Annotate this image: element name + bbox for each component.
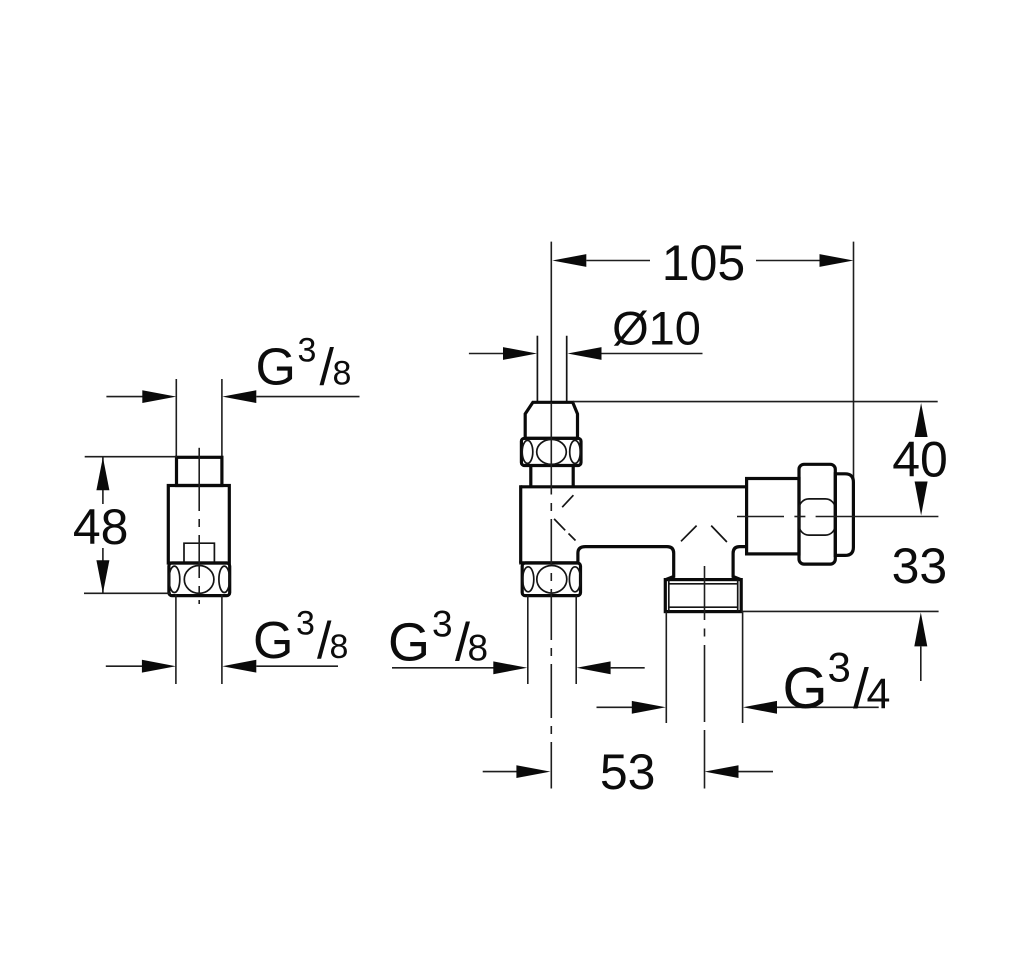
valve inlet nut outline <box>521 438 581 465</box>
adapter inner seat rectangle <box>184 543 214 563</box>
internal passage dash lower-left b <box>569 534 576 541</box>
outlet spigot inner right line <box>737 580 739 612</box>
svg-text:40: 40 <box>892 432 948 488</box>
valve body top edge <box>521 485 747 488</box>
ext line right of outlet thread <box>742 612 744 723</box>
lower nut left ellipse <box>523 567 534 592</box>
outlet spigot inner bottom line <box>669 606 738 608</box>
dim G3/8 bottom-left: left arrowhead <box>142 660 176 673</box>
dim 33: arrow tail <box>920 646 922 681</box>
dim G3/8 bottom-left: left arrow line <box>106 665 142 667</box>
right fitting nut <box>799 464 835 564</box>
ext line right-top of adapter thread <box>221 379 223 457</box>
svg-text:4: 4 <box>867 670 891 718</box>
dim 105: right line segment <box>756 260 820 262</box>
dim 33: up arrowhead below line <box>914 612 927 646</box>
label G 3/8 top <box>256 331 352 396</box>
ext line right-bottom of adapter thread <box>221 595 223 685</box>
dim G3/8 middle: left arrowhead <box>493 661 527 674</box>
svg-text:3: 3 <box>828 644 851 691</box>
dim G3/4: left arrowhead <box>632 701 666 714</box>
dim G3/8 top: left arrowhead <box>142 390 176 403</box>
valve body right bottom edge <box>733 547 747 580</box>
dim 48: down arrowhead <box>96 560 109 593</box>
adapter bottom nut outline <box>169 563 230 596</box>
ext line left-bottom of valve inlet thread <box>527 596 529 684</box>
ext line right-bottom of valve inlet thread <box>575 596 577 684</box>
dim 48: top extension line <box>85 456 177 458</box>
outlet center line <box>704 566 706 620</box>
inlet nut right ellipse <box>570 440 581 463</box>
dim 48: up arrowhead <box>96 457 109 490</box>
dim 48: lower line segment <box>102 548 104 593</box>
dim 40: up arrowhead <box>915 403 928 437</box>
valve body step and mid bottom edge <box>578 547 674 580</box>
dim 48: upper line segment <box>102 457 104 504</box>
dim O10: left arrow line <box>469 353 505 355</box>
label G 3/8 middle <box>388 604 488 673</box>
dim G3/8 middle: right arrowhead <box>577 661 611 674</box>
svg-text:8: 8 <box>330 628 349 666</box>
svg-text:48: 48 <box>73 499 129 555</box>
inlet neck right edge <box>572 466 575 487</box>
adapter body <box>168 486 229 564</box>
internal passage dash lower-left a <box>554 519 565 530</box>
dim 105: left line segment <box>586 260 650 262</box>
svg-text:8: 8 <box>333 355 352 393</box>
svg-text:3: 3 <box>432 604 453 645</box>
dim 53: right arrow tail <box>739 771 774 773</box>
dim G3/8 top: left arrow line <box>106 396 143 398</box>
dim G3/4: left arrow tail <box>597 706 634 708</box>
dim 105: left arrowhead <box>552 254 586 267</box>
outlet spigot outer rect <box>665 580 741 612</box>
lower nut right ellipse <box>569 567 580 592</box>
dim G3/8 bottom-left: right arrowhead <box>222 660 256 673</box>
dim 105: left extension line (inlet axis) <box>550 242 552 403</box>
ext line left of outlet thread <box>665 612 667 723</box>
svg-text:8: 8 <box>468 628 489 669</box>
valve body bottom-left edge <box>519 561 578 564</box>
svg-text:53: 53 <box>600 744 656 800</box>
svg-text:G: G <box>253 612 293 670</box>
ext line left-bottom of adapter thread <box>175 595 177 685</box>
dim 48: bottom extension line <box>84 592 171 594</box>
svg-text:Ø10: Ø10 <box>612 302 701 355</box>
internal passage dash center-left arm <box>681 526 697 542</box>
right fitting axis line c <box>816 516 939 518</box>
dim G3/8 bottom-left: right arrow tail <box>256 665 338 667</box>
dim 40: top extension line <box>573 401 938 403</box>
valve body left edge <box>519 485 522 563</box>
svg-text:33: 33 <box>892 538 948 594</box>
outlet spigot inner top line <box>669 583 738 585</box>
outlet spigot inner left line <box>668 580 670 612</box>
internal passage dash upper-left <box>562 495 573 507</box>
dim 40: down arrowhead <box>915 482 928 516</box>
dim O10: right arrow tail <box>602 353 703 355</box>
right fitting end cap <box>835 474 853 556</box>
svg-text:G: G <box>783 656 828 721</box>
right fitting axis line b <box>794 516 805 518</box>
svg-text:G: G <box>256 339 296 397</box>
right fitting nut middle facet <box>799 499 835 535</box>
right fitting main block <box>747 479 799 554</box>
label G 3/8 bottom-left <box>253 605 348 670</box>
internal passage dash center-right arm <box>711 526 727 542</box>
dim G3/4: right arrow tail <box>777 706 879 708</box>
dim G3/8 top: right arrowhead <box>222 390 256 403</box>
inlet nut center ellipse <box>537 439 567 464</box>
dim G3/4: right arrowhead <box>743 701 777 714</box>
dim G3/8 top: right arrow tail <box>256 396 359 398</box>
label G 3/4 <box>783 644 891 722</box>
dim 53: right arrowhead <box>705 765 739 778</box>
inlet nut left ellipse <box>522 440 533 463</box>
inlet pipe right wall <box>566 336 568 402</box>
valve lower-left nut outline <box>522 563 580 596</box>
dim O10: right arrowhead <box>568 347 602 360</box>
dim G3/8 middle: left arrow tail <box>392 667 495 669</box>
dim O10: left arrowhead <box>503 347 537 360</box>
lower nut center ellipse <box>537 566 567 594</box>
dim 105: right extension line <box>853 242 855 518</box>
adapter nut right ellipse <box>219 566 230 592</box>
valve inlet cap (olive) <box>525 402 577 438</box>
svg-text:105: 105 <box>662 235 745 291</box>
svg-text:G: G <box>388 613 430 673</box>
ext line left-top of adapter thread <box>175 379 177 457</box>
adapter center line <box>198 448 200 511</box>
valve inlet center line <box>550 402 552 494</box>
inlet neck left edge <box>529 466 532 487</box>
svg-text:3: 3 <box>296 605 315 643</box>
dim 53: left arrow line <box>483 771 517 773</box>
dim G3/8 middle: right arrow tail <box>611 667 645 669</box>
dim 33: bottom extension line <box>741 610 938 612</box>
adapter nut center ellipse <box>184 566 214 594</box>
svg-text:3: 3 <box>298 331 317 369</box>
adapter nut left ellipse <box>169 566 180 592</box>
dim 105: right arrowhead <box>820 254 854 267</box>
inlet pipe left wall <box>536 336 538 402</box>
right fitting axis line a <box>737 516 784 518</box>
adapter top cap <box>177 457 222 485</box>
dim 53: left arrowhead <box>516 765 550 778</box>
